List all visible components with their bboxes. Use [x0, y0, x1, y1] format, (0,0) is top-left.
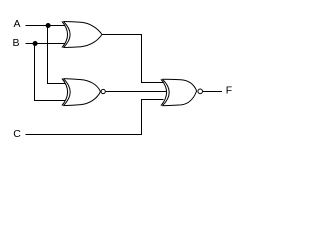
svg-text:F: F — [226, 85, 232, 97]
svg-text:A: A — [14, 18, 21, 30]
svg-text:C: C — [13, 128, 21, 140]
svg-text:B: B — [13, 37, 20, 49]
